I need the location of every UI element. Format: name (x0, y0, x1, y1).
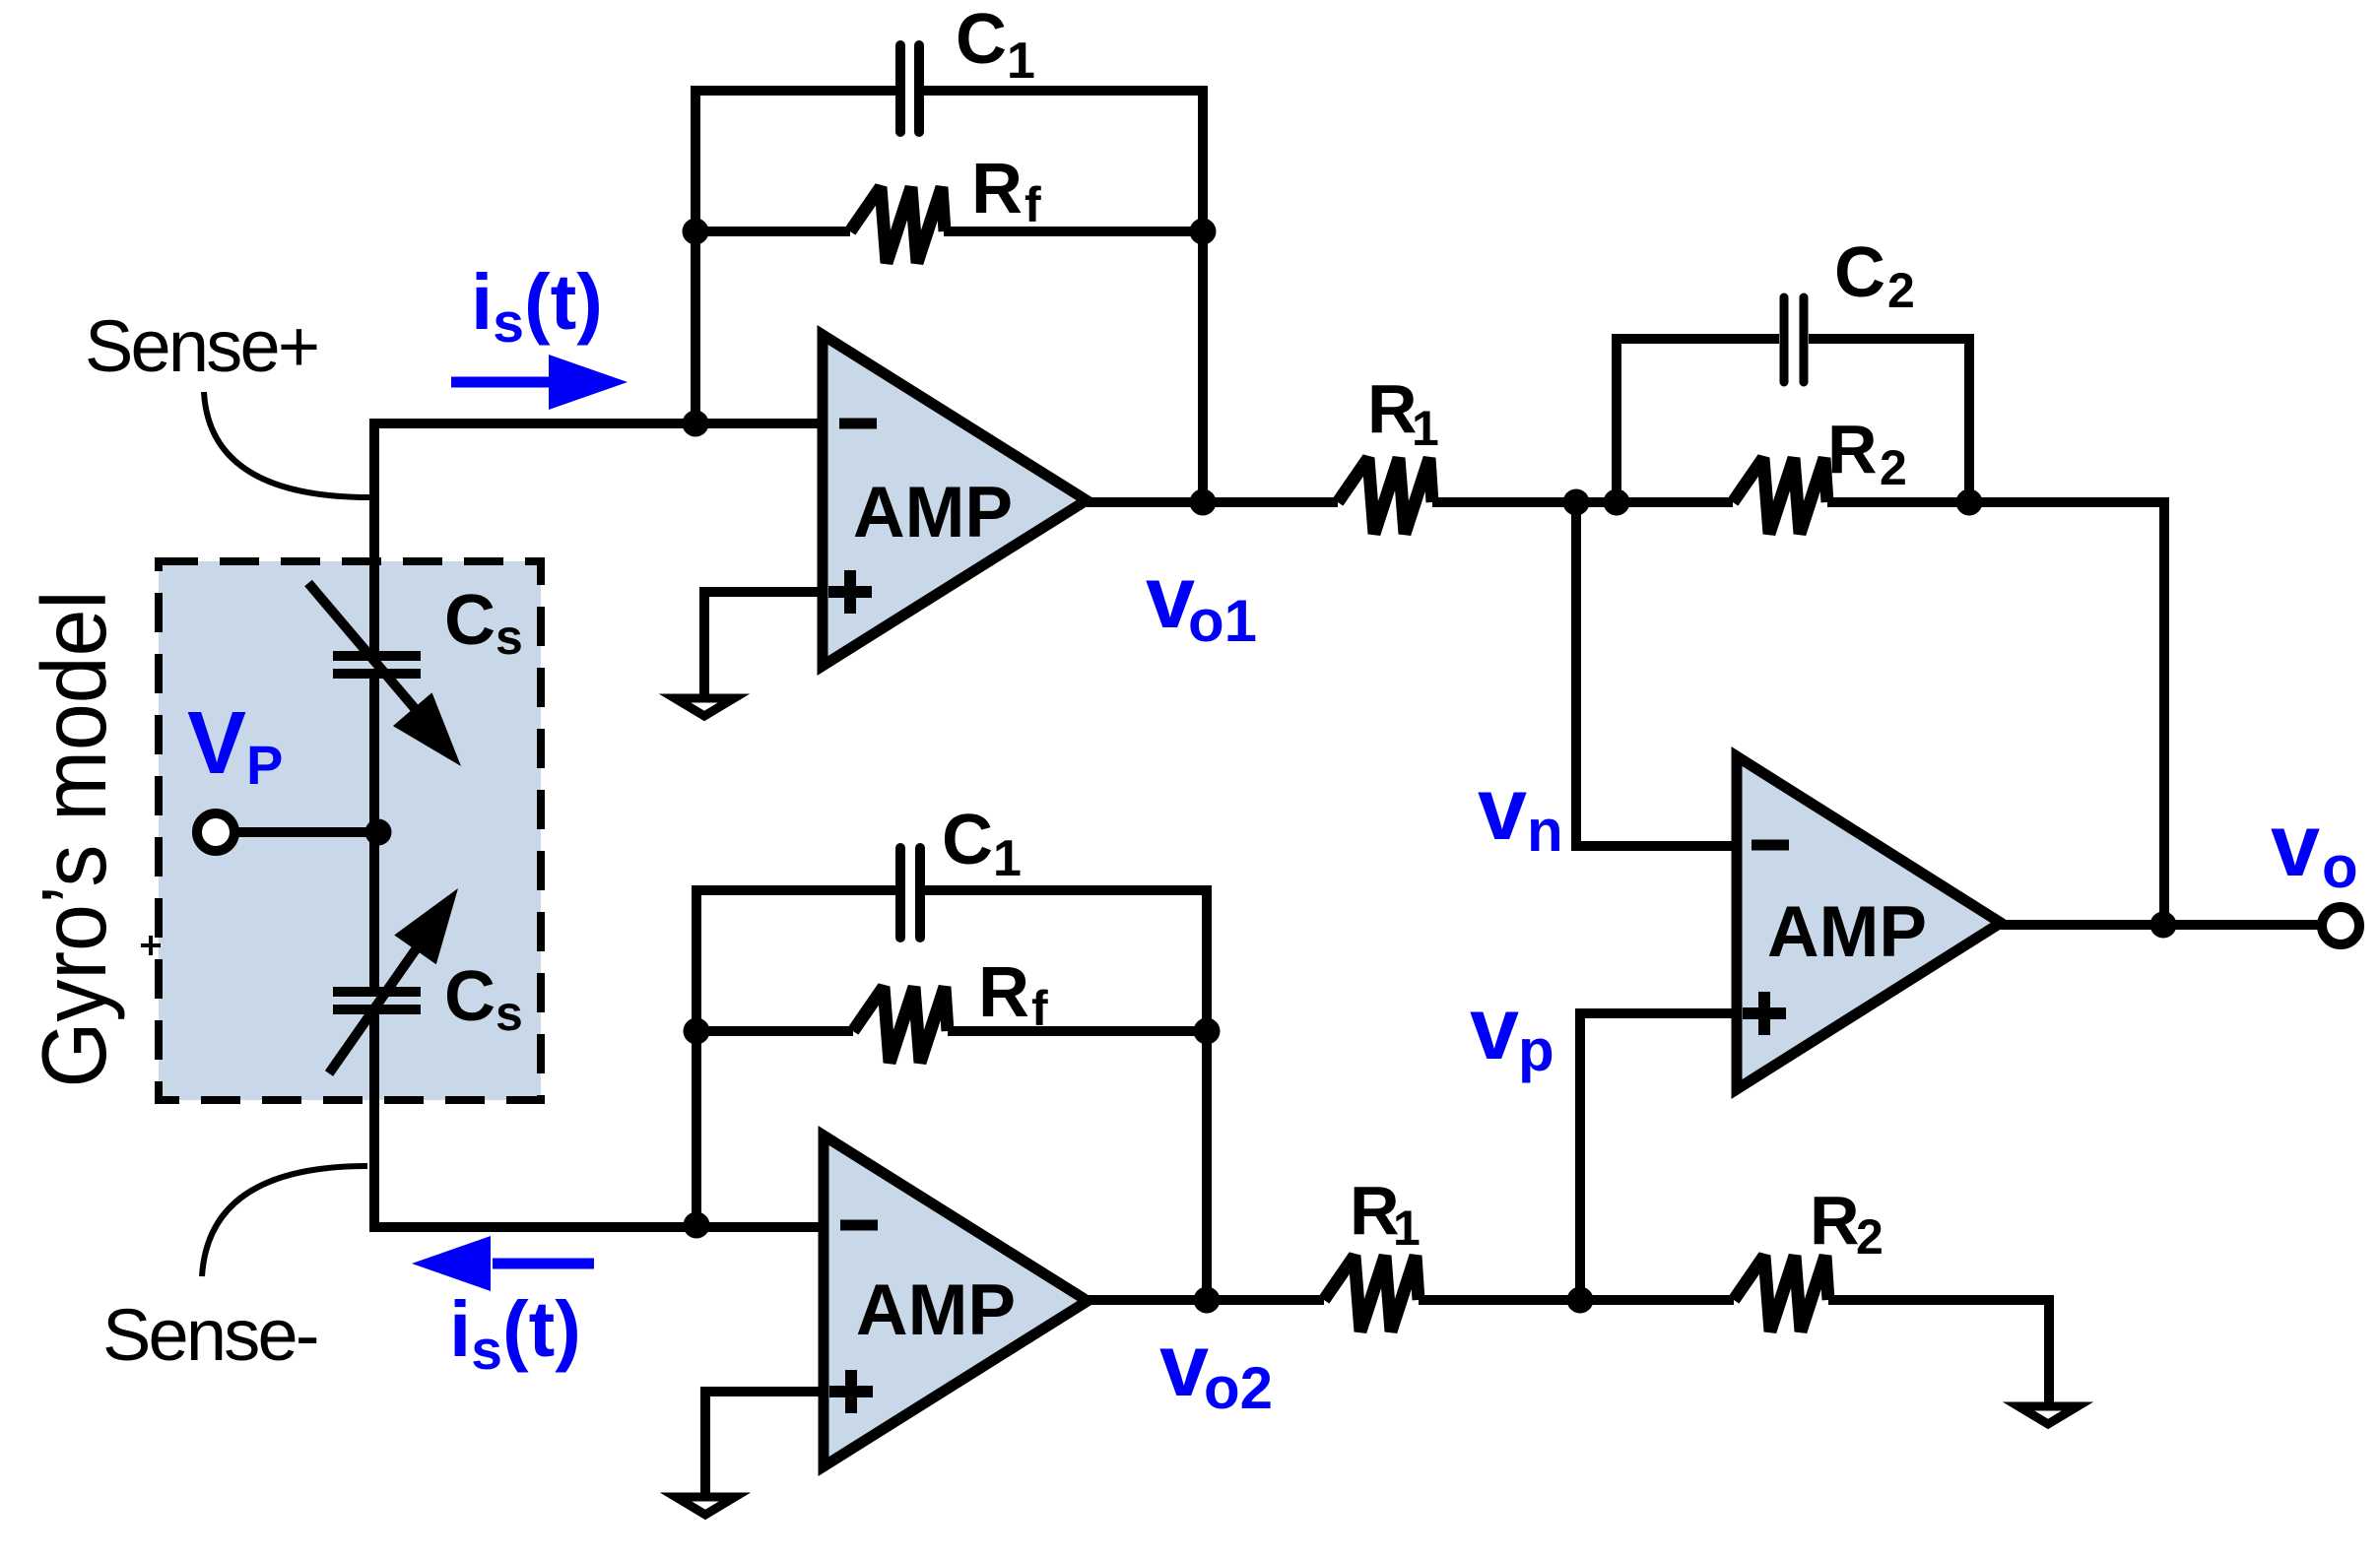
wire U1 plus input (704, 592, 823, 698)
svg-text:Sense-: Sense- (102, 1294, 317, 1376)
stray tick mark (141, 936, 161, 955)
wire vn row (1576, 502, 2164, 925)
svg-text:is(t): is(t) (449, 1285, 581, 1382)
svg-text:v: v (1470, 980, 1519, 1078)
resistor R1 bottom (1324, 1256, 1419, 1331)
op-amp U1 minus sign (839, 419, 877, 429)
svg-text:v: v (1159, 1317, 1209, 1415)
wire VP (235, 827, 378, 837)
Sense+ leader line (204, 392, 370, 497)
junction FB2 inverting node (684, 1212, 710, 1239)
junction vn node (1563, 489, 1590, 516)
svg-text:is(t): is(t) (471, 258, 603, 355)
svg-text:p: p (1518, 1017, 1554, 1083)
terminal VP (197, 813, 234, 851)
junction U2 output node (1194, 1287, 1221, 1314)
svg-text:R: R (1827, 411, 1878, 487)
gyro model box (159, 561, 541, 1100)
svg-text:Gyro’s model: Gyro’s model (23, 590, 125, 1087)
junction R2 right node (1956, 489, 1983, 516)
wire vp horizontal (1580, 1013, 1737, 1300)
resistor R1 top (1338, 458, 1432, 534)
capacitor C2 wires (1809, 339, 1969, 502)
resistor Rf top (850, 187, 945, 263)
junction U3 output node (2150, 912, 2177, 939)
op-amp U2 minus sign (840, 1220, 878, 1231)
arrow is(t) top (451, 355, 628, 410)
op-amp U1 plus sign (828, 570, 872, 614)
wire vp row (1580, 1300, 2049, 1407)
op-amp U2 body (824, 1136, 1088, 1466)
wire sense column (369, 675, 379, 992)
ground GND3 (2018, 1406, 2078, 1424)
wire U3 output (2001, 920, 2322, 930)
junction VP node (365, 819, 392, 846)
svg-text:AMP: AMP (853, 473, 1013, 552)
capacitor Cs top arrow (308, 583, 461, 766)
op-amp U3 plus sign (1743, 992, 1786, 1035)
resistor Rf bottom (853, 987, 948, 1063)
junction FB2 right Rf node (1194, 1018, 1221, 1045)
wire FB3 left vertical (1617, 339, 1779, 502)
junction U1 output node (1190, 489, 1217, 516)
op-amp U1 body (823, 335, 1087, 666)
svg-text:1: 1 (1412, 401, 1439, 456)
resistor R2 top (1733, 458, 1827, 534)
capacitor C2 plates (1784, 297, 1804, 382)
capacitor C1 bottom plates (900, 848, 920, 938)
capacitor C1 bottom wires (925, 890, 1207, 1300)
wire U1 output (1087, 497, 1576, 507)
op-amp U3 minus sign (1752, 840, 1789, 851)
svg-text:AMP: AMP (856, 1270, 1016, 1350)
junction vp node (1567, 1287, 1594, 1314)
junction FB1 inverting node (683, 411, 709, 437)
svg-text:o: o (2322, 834, 2358, 900)
junction FB1 left Rf node (683, 219, 709, 245)
svg-text:R: R (1367, 370, 1418, 447)
resistor R2 bottom (1734, 1256, 1828, 1331)
wire Sense+ top (374, 423, 823, 656)
capacitor C1 top wires (924, 91, 1203, 502)
wire vn vertical (1576, 502, 1737, 846)
op-amp U3 body (1737, 756, 2001, 1089)
svg-text:R: R (1810, 1182, 1860, 1259)
wire Sense- bottom (374, 1010, 824, 1227)
resistor Rf bottom leads (696, 1026, 1207, 1036)
wire U2 output (1088, 1295, 1580, 1305)
svg-text:n: n (1527, 798, 1563, 864)
svg-text:AMP: AMP (1767, 892, 1927, 972)
terminal vo (2322, 907, 2359, 944)
svg-text:Sense+: Sense+ (85, 305, 317, 387)
wire FB2 left vertical (696, 890, 895, 1225)
svg-text:v: v (2271, 797, 2320, 895)
svg-text:o2: o2 (1204, 1355, 1273, 1421)
capacitor Cs top plates (333, 656, 421, 674)
op-amp U2 plus sign (829, 1370, 873, 1413)
arrow is(t) bottom (412, 1236, 594, 1291)
ground GND1 (675, 698, 734, 716)
capacitor C1 top plates (900, 45, 919, 132)
svg-text:2: 2 (1856, 1209, 1884, 1265)
svg-text:2: 2 (1880, 440, 1907, 495)
wire FB1 left vertical (695, 91, 895, 423)
svg-text:1: 1 (1393, 1201, 1421, 1256)
svg-text:o1: o1 (1188, 588, 1257, 654)
Sense- leader line (202, 1166, 367, 1276)
junction FB2 left Rf node (684, 1018, 710, 1045)
ground GND2 (676, 1497, 735, 1515)
svg-text:v: v (1478, 760, 1527, 859)
wire U2 plus input (705, 1392, 824, 1498)
junction FB1 right Rf node (1190, 219, 1217, 245)
capacitor Cs bottom plates (333, 992, 421, 1009)
capacitor Cs bottom arrow (329, 888, 458, 1073)
junction FB3 left tap (1604, 489, 1630, 516)
resistor Rf top leads (695, 227, 1203, 236)
svg-text:R: R (1350, 1172, 1400, 1249)
